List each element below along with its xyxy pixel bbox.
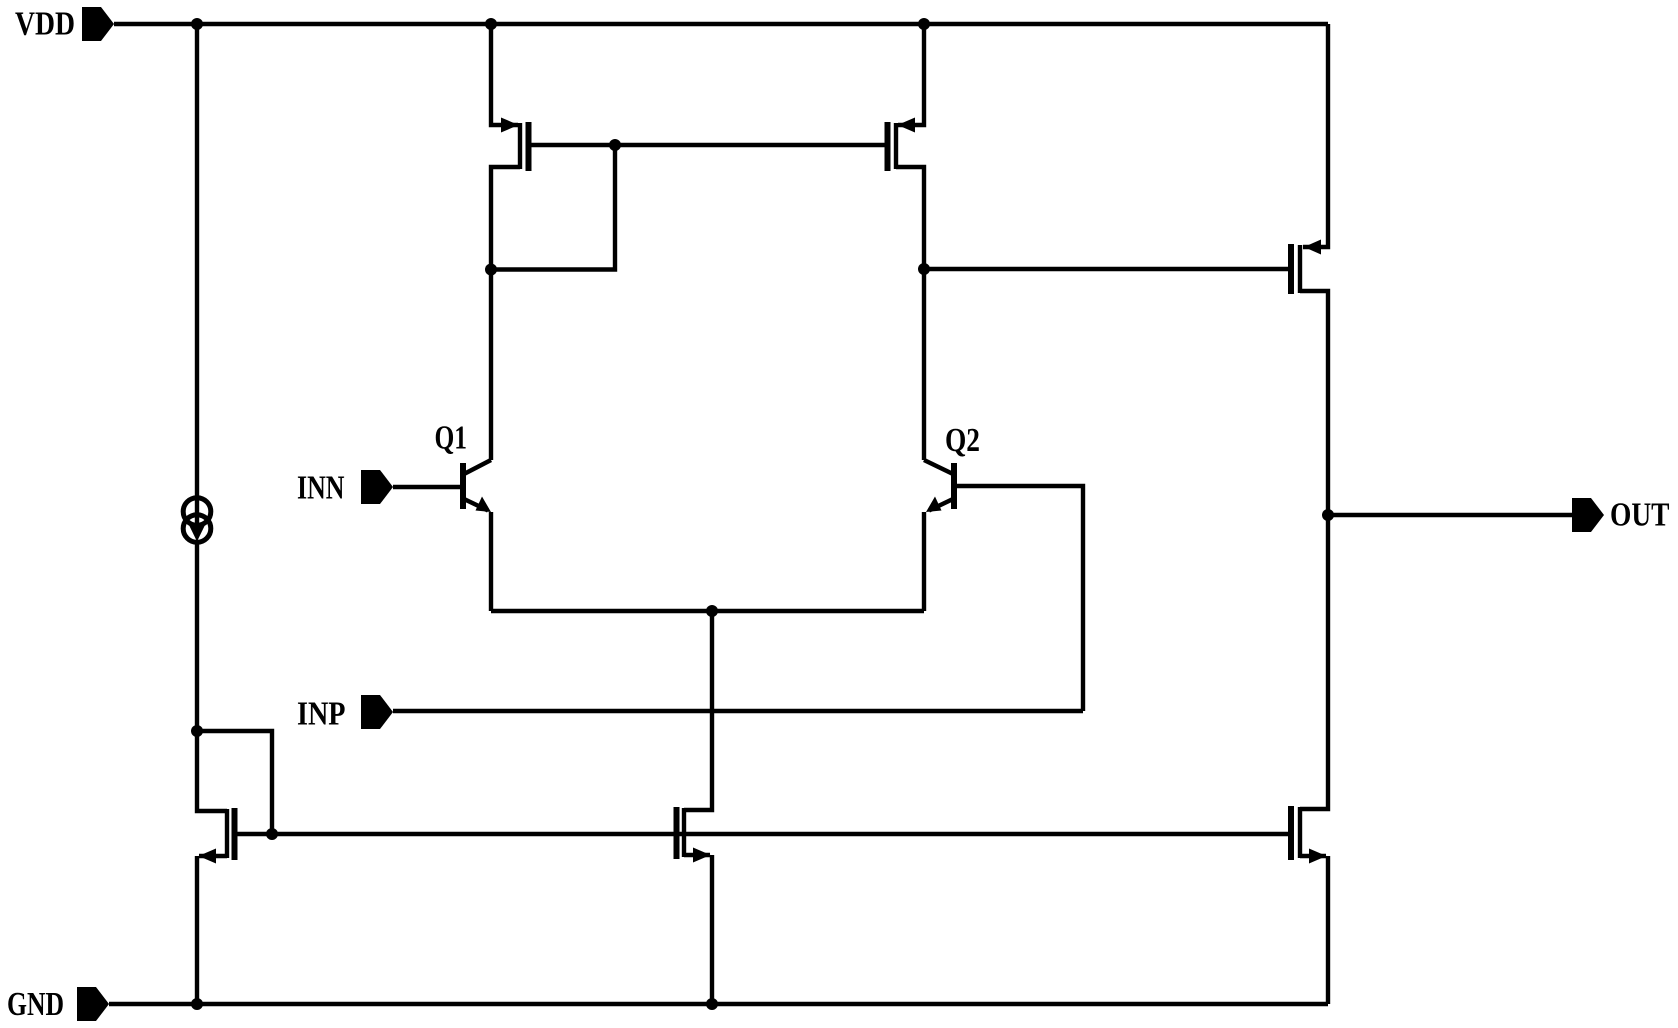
transistor Q2 (NPN) [924,269,980,611]
transistor Q1 (NPN) [435,270,492,612]
wire GND rail [109,1002,1328,1006]
INN pin [297,470,393,507]
wire bottom gate bus [237,832,1289,836]
wire OUT [1328,513,1572,517]
svg-text:Q2: Q2 [945,422,980,459]
VDD pin [15,6,114,43]
GND pin [7,986,109,1023]
transistor M4 (NMOS bias) [197,731,235,1004]
wire INN to Q1 base [393,485,460,489]
wire M1-M2 gate [531,143,886,147]
node GND left [191,998,203,1010]
INP pin [297,695,393,733]
wire diode connection M1 [491,145,615,270]
node VDD junction M1 [485,18,497,30]
wire VDD top rail [114,22,1328,26]
node OUT [1322,509,1334,521]
node bias drain [191,725,203,737]
node M4 gate tie [266,828,278,840]
wire Q2 base to INP riser [957,486,1083,711]
current source I1 [183,498,211,543]
node VDD junction left [191,18,203,30]
node tail junction [706,605,718,617]
transistor M2 (PMOS right mirror) [888,24,925,269]
svg-text:INN: INN [297,470,345,507]
svg-text:INP: INP [297,696,346,733]
svg-text:VDD: VDD [15,6,75,43]
node gate tie [609,139,621,151]
transistor M6 (NMOS output) [1291,515,1328,1004]
transistor M5 (NMOS tail) [677,611,713,1004]
wire emitter tail [491,609,924,613]
svg-text:Q1: Q1 [435,420,468,457]
svg-text:GND: GND [7,986,64,1023]
node M1 drain [485,264,497,276]
wire left bias rail lower [195,542,199,731]
wire M4 diode connection [197,731,272,834]
transistor M1 (PMOS left mirror) [491,24,529,270]
node VDD junction M2 [918,18,930,30]
node GND middle [706,998,718,1010]
wire left bias rail upper [195,24,199,497]
wire M2 drain to M3 gate [924,267,1288,271]
transistor M3 (PMOS output) [1291,24,1328,515]
node M2 drain [918,263,930,275]
wire INP [393,709,1083,713]
svg-text:OUT: OUT [1610,497,1670,534]
OUT pin [1572,497,1670,534]
